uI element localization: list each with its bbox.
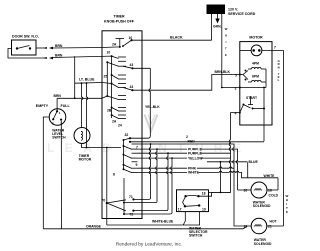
wire plug right down xyxy=(221,14,223,88)
svg-text:10: 10 xyxy=(107,51,111,55)
wire motor 2 to timer xyxy=(130,141,264,143)
svg-text:120 V.: 120 V. xyxy=(228,8,238,12)
motor bottom exit 2 xyxy=(263,109,265,142)
svg-text:MOTOR: MOTOR xyxy=(249,36,263,40)
svg-text:2B: 2B xyxy=(107,109,112,113)
svg-text:WHITE: WHITE xyxy=(188,171,200,175)
svg-text:43: 43 xyxy=(130,63,134,67)
svg-text:BRN-BLK: BRN-BLK xyxy=(215,70,231,74)
wls pin 1 xyxy=(56,110,58,112)
motor box xyxy=(240,42,272,125)
hot solenoid xyxy=(251,218,267,234)
svg-text:3: 3 xyxy=(235,87,237,91)
door switch contacts xyxy=(16,47,18,49)
watermark logo xyxy=(145,115,158,132)
svg-text:SERVICE CORD: SERVICE CORD xyxy=(228,12,256,16)
svg-text:WHITE-BLUE: WHITE-BLUE xyxy=(152,219,174,223)
water level switch xyxy=(49,109,66,126)
svg-text:WHITE: WHITE xyxy=(264,174,276,178)
motor speed selector xyxy=(245,70,247,72)
wire timer motor in xyxy=(102,147,121,149)
wire PURPLE 1 xyxy=(138,149,238,190)
svg-text:YELLOW: YELLOW xyxy=(188,156,203,160)
wire YEL-BLK vertical xyxy=(132,67,150,69)
wire BLACK xyxy=(132,39,212,41)
wls pin 3 xyxy=(60,119,62,121)
wire motor 4 left xyxy=(209,113,240,193)
svg-text:6PM: 6PM xyxy=(252,75,259,79)
svg-text:HOT: HOT xyxy=(270,219,278,223)
svg-text:4: 4 xyxy=(235,112,237,116)
wire to timer motor xyxy=(82,83,83,127)
label WHITE vertical xyxy=(286,194,289,214)
wire YELLOW xyxy=(138,157,231,159)
wire wls left down xyxy=(43,117,49,229)
wire PURPLE 2 xyxy=(138,152,231,154)
selector arm upper xyxy=(184,195,186,197)
svg-text:COLD: COLD xyxy=(269,194,279,198)
motor start switch xyxy=(243,104,245,106)
wire 2A to door xyxy=(102,46,120,49)
svg-text:24: 24 xyxy=(118,124,122,128)
label grn-yel vertical xyxy=(278,59,280,82)
svg-text:START: START xyxy=(246,96,258,100)
wire 9 riser xyxy=(156,148,158,150)
selector arm lower xyxy=(185,205,199,208)
svg-text:19: 19 xyxy=(202,208,206,212)
svg-text:PURPLE: PURPLE xyxy=(188,151,202,155)
svg-text:10: 10 xyxy=(129,36,133,40)
wire GRN-BLK to motor 5 xyxy=(132,75,239,91)
svg-text:43: 43 xyxy=(130,85,134,89)
svg-text:17: 17 xyxy=(178,208,182,212)
timer left column wire 2 xyxy=(106,62,108,96)
wire 32 to yel-blk riser xyxy=(130,68,150,138)
svg-text:7: 7 xyxy=(274,46,276,50)
svg-text:9: 9 xyxy=(136,163,138,167)
ground arrow xyxy=(215,19,219,24)
service cord plug xyxy=(207,5,226,15)
svg-text:TIMER: TIMER xyxy=(113,15,125,19)
svg-text:SOLENOID: SOLENOID xyxy=(254,242,272,246)
svg-text:2: 2 xyxy=(186,135,188,139)
wire 8 riser xyxy=(171,157,173,159)
wire to motor terminal 3 xyxy=(222,87,240,89)
wire plug left to black xyxy=(211,14,213,40)
svg-text:FULL: FULL xyxy=(61,104,71,108)
wire timer motor to 70 xyxy=(106,148,108,204)
wire WHITE bundle xyxy=(138,171,279,178)
svg-text:BLUE: BLUE xyxy=(249,160,259,164)
wire PINK xyxy=(138,167,235,168)
timer terminal 43 upper xyxy=(131,67,133,69)
svg-text:25: 25 xyxy=(104,75,108,79)
timer contact arm g xyxy=(111,114,113,116)
wls arm xyxy=(53,111,57,119)
timer motor xyxy=(74,128,90,144)
timer contact arm d xyxy=(111,83,113,85)
cold right bracket xyxy=(277,178,279,190)
water selector switch box xyxy=(177,190,209,212)
timer box xyxy=(102,31,142,219)
svg-text:SWITCH: SWITCH xyxy=(52,136,66,140)
wire 18 out xyxy=(199,192,231,196)
timer terminal 43 lower xyxy=(131,89,133,91)
svg-text:BRN: BRN xyxy=(55,53,63,57)
wire 18 riser xyxy=(220,162,222,193)
wls pin 2 xyxy=(52,118,54,120)
wire 72 riser xyxy=(167,152,169,154)
svg-text:SOLENOID: SOLENOID xyxy=(253,204,271,208)
svg-text:SWITCH: SWITCH xyxy=(189,234,203,238)
svg-text:BLACK: BLACK xyxy=(170,36,183,40)
svg-text:BRN: BRN xyxy=(55,44,63,48)
timer contact arm a xyxy=(112,56,119,58)
motor windings join xyxy=(265,69,267,88)
svg-text:E: E xyxy=(286,210,288,214)
timer left column wire xyxy=(111,56,113,118)
svg-text:KNOB-PUSH OFF: KNOB-PUSH OFF xyxy=(104,20,135,24)
svg-text:E: E xyxy=(225,53,227,57)
svg-text:ORANGE: ORANGE xyxy=(86,225,102,229)
timer contact arm e xyxy=(106,95,108,97)
svg-text:MOTOR: MOTOR xyxy=(79,158,92,162)
svg-text:W: W xyxy=(225,27,228,31)
svg-text:LT. BLUE: LT. BLUE xyxy=(79,77,95,81)
wire LT BLUE into timer xyxy=(102,83,112,84)
svg-text:18: 18 xyxy=(202,192,206,196)
svg-text:5: 5 xyxy=(235,73,237,77)
wire door switch lower loop xyxy=(8,49,44,59)
svg-text:4PM: 4PM xyxy=(252,62,259,66)
wire 71 riser xyxy=(150,143,152,145)
timer contact arm b xyxy=(107,62,118,66)
svg-text:Rendered by LeadVenture, Inc.: Rendered by LeadVenture, Inc. xyxy=(116,241,182,247)
wire RED xyxy=(138,144,252,226)
cold solenoid xyxy=(251,182,267,198)
wire BLUE xyxy=(207,162,248,178)
wire lt blue branch to timer motor return xyxy=(87,83,88,147)
svg-text:DOOR SW. N.O.: DOOR SW. N.O. xyxy=(12,35,39,39)
svg-text:EMPTY: EMPTY xyxy=(36,104,49,108)
svg-text:8: 8 xyxy=(113,173,115,177)
timer contact arm c xyxy=(111,74,113,76)
svg-text:70: 70 xyxy=(102,199,106,203)
selector stubs down xyxy=(183,212,185,225)
svg-text:YEL-BLK: YEL-BLK xyxy=(145,105,160,109)
timer contact 2A xyxy=(116,38,125,40)
wire door switch upper to timer xyxy=(36,47,44,49)
svg-text:RED: RED xyxy=(188,140,196,144)
timer inner column low xyxy=(123,202,125,204)
door switch DS1 box xyxy=(12,40,37,55)
svg-text:72: 72 xyxy=(130,213,134,217)
svg-text:10: 10 xyxy=(244,224,248,228)
svg-text:T: T xyxy=(225,47,227,51)
svg-text:2A: 2A xyxy=(112,43,117,47)
svg-text:H: H xyxy=(225,34,227,38)
timer contact arm h xyxy=(123,145,125,147)
wire timer motor bottom xyxy=(82,143,103,147)
svg-text:32: 32 xyxy=(125,133,129,137)
motor armature xyxy=(251,45,262,56)
svg-text:7: 7 xyxy=(136,145,138,149)
svg-text:2A: 2A xyxy=(112,120,117,124)
svg-text:71: 71 xyxy=(129,195,133,199)
timer terminal 10 top xyxy=(130,39,132,41)
svg-text:L: L xyxy=(278,78,280,82)
wire BRN into timer xyxy=(102,96,107,98)
svg-text:BRN: BRN xyxy=(54,94,62,98)
wire wls pin3 down xyxy=(60,121,62,229)
svg-text:GRN.: GRN. xyxy=(213,25,222,29)
wire right side down xyxy=(283,50,285,226)
timer contact arm f xyxy=(111,107,113,109)
